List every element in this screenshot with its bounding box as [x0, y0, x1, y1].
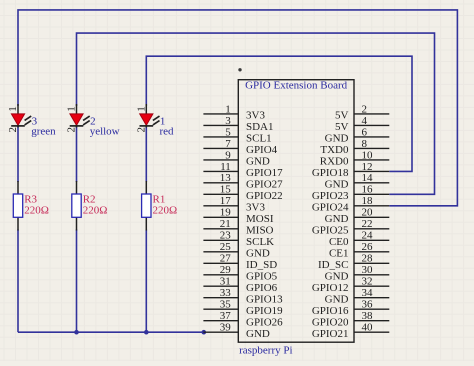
- svg-text:5V: 5V: [335, 110, 349, 122]
- pin 15 GPIO22 (left): [203, 184, 282, 202]
- pin 12 GPIO18 (right): [312, 161, 389, 179]
- svg-text:GPIO27: GPIO27: [246, 178, 283, 190]
- svg-text:31: 31: [220, 276, 231, 288]
- pin 20 GND (right): [325, 207, 390, 225]
- svg-text:GPIO26: GPIO26: [246, 316, 283, 328]
- svg-text:GPIO16: GPIO16: [312, 305, 349, 317]
- svg-text:17: 17: [220, 195, 232, 207]
- svg-text:5: 5: [225, 126, 231, 138]
- svg-text:24: 24: [362, 230, 374, 242]
- svg-text:3V3: 3V3: [246, 201, 265, 213]
- wire: resistor to ground bus (red column): [145, 230, 147, 333]
- pin 35 GPIO19 (left): [203, 299, 283, 317]
- pin 22 GPIO25 (right): [312, 218, 389, 236]
- pin 16 GPIO23 (right): [312, 184, 389, 202]
- pin 5 SCL1 (left): [203, 126, 271, 144]
- svg-text:39: 39: [220, 322, 232, 334]
- svg-text:10: 10: [362, 149, 374, 161]
- svg-text:3V3: 3V3: [246, 110, 265, 122]
- svg-text:1: 1: [225, 103, 231, 115]
- svg-text:GPIO6: GPIO6: [246, 282, 278, 294]
- svg-text:40: 40: [362, 322, 374, 334]
- pin 28 ID_SC (right): [318, 253, 389, 271]
- svg-text:CE1: CE1: [329, 247, 349, 259]
- svg-text:raspberry Pi: raspberry Pi: [239, 345, 292, 357]
- wire: green LED cathode to resistor: [17, 126, 19, 182]
- svg-text:28: 28: [362, 253, 374, 265]
- svg-text:GPIO4: GPIO4: [246, 144, 278, 156]
- svg-text:GPIO22: GPIO22: [246, 190, 283, 202]
- resistor R3 220&#937;: [13, 181, 22, 231]
- pin 2 5V (right): [335, 103, 389, 121]
- svg-text:ID_SC: ID_SC: [318, 259, 349, 271]
- svg-text:32: 32: [362, 276, 373, 288]
- pin 6 GND (right): [325, 126, 390, 144]
- svg-text:33: 33: [220, 287, 232, 299]
- svg-text:R2: R2: [83, 193, 96, 205]
- LED 2 (yellow): [70, 104, 90, 128]
- svg-text:GPIO18: GPIO18: [312, 167, 349, 179]
- svg-text:35: 35: [220, 299, 232, 311]
- resistor R1 220&#937;: [142, 181, 151, 231]
- svg-text:green: green: [31, 125, 56, 137]
- GPIO Extension Board (raspberry Pi header): [238, 80, 354, 343]
- svg-text:3: 3: [225, 115, 231, 127]
- svg-text:18: 18: [362, 195, 374, 207]
- svg-text:GPIO25: GPIO25: [312, 224, 349, 236]
- pin 25 GND (left): [203, 241, 269, 259]
- svg-text:SDA1: SDA1: [246, 121, 274, 133]
- svg-text:GND: GND: [325, 213, 349, 225]
- junction: yellow column on ground bus: [74, 330, 79, 335]
- wire: red LED cathode to resistor: [145, 126, 147, 182]
- resistor R2 220&#937;: [72, 181, 81, 231]
- pin 27 ID_SD (left): [203, 253, 277, 271]
- pin 21 MISO (left): [203, 218, 273, 236]
- svg-text:6: 6: [362, 126, 368, 138]
- svg-text:GND: GND: [325, 293, 349, 305]
- svg-text:MISO: MISO: [246, 224, 274, 236]
- pin 36 GPIO16 (right): [312, 299, 389, 317]
- svg-text:red: red: [160, 125, 175, 137]
- svg-text:13: 13: [220, 172, 232, 184]
- svg-text:SCL1: SCL1: [246, 133, 272, 145]
- svg-text:SCLK: SCLK: [246, 236, 274, 248]
- pin 40 GPIO21 (right): [312, 322, 389, 340]
- svg-text:GPIO23: GPIO23: [312, 190, 349, 202]
- pin 38 GPIO20 (right): [312, 310, 389, 328]
- pin 29 GPIO5 (left): [203, 264, 277, 282]
- wire: red LED anode up and across to GPIO18 pin 12 stub: [146, 56, 412, 171]
- pin 33 GPIO13 (left): [203, 287, 283, 305]
- pin 3 SDA1 (left): [203, 115, 273, 133]
- pin 37 GPIO26 (left): [203, 310, 283, 328]
- svg-text:26: 26: [362, 241, 374, 253]
- svg-text:GND: GND: [325, 270, 349, 282]
- svg-text:36: 36: [362, 299, 374, 311]
- svg-text:16: 16: [362, 184, 374, 196]
- svg-text:22: 22: [362, 218, 373, 230]
- pin 1 3V3 (left): [203, 103, 265, 121]
- svg-text:GND: GND: [246, 328, 270, 340]
- svg-text:9: 9: [225, 149, 231, 161]
- svg-text:GND: GND: [325, 133, 349, 145]
- svg-text:GPIO20: GPIO20: [312, 316, 349, 328]
- svg-text:20: 20: [362, 207, 374, 219]
- pin 34 GND (right): [325, 287, 390, 305]
- pin 14 GND (right): [325, 172, 390, 190]
- svg-text:23: 23: [220, 230, 232, 242]
- pin 39 GND (left): [203, 322, 269, 340]
- svg-text:2: 2: [362, 103, 368, 115]
- pin 19 MOSI (left): [203, 207, 273, 225]
- pin 26 CE1 (right): [329, 241, 389, 259]
- svg-text:34: 34: [362, 287, 374, 299]
- svg-text:11: 11: [220, 161, 231, 173]
- svg-text:CE0: CE0: [329, 236, 349, 248]
- svg-text:220Ω: 220Ω: [83, 205, 108, 217]
- svg-text:GPIO19: GPIO19: [246, 305, 283, 317]
- pin 32 GPIO12 (right): [312, 276, 389, 294]
- svg-text:2: 2: [7, 127, 19, 133]
- pin 9 GND (left): [203, 149, 269, 167]
- wire: yellow LED cathode to resistor: [76, 126, 78, 182]
- svg-text:25: 25: [220, 241, 232, 253]
- pin 11 GPIO17 (left): [203, 161, 283, 179]
- pin 13 GPIO27 (left): [203, 172, 283, 190]
- svg-text:GND: GND: [246, 156, 270, 168]
- LED 3 (green): [11, 104, 31, 128]
- svg-text:ID_SD: ID_SD: [246, 259, 277, 271]
- wire: resistor to ground bus (yellow column): [76, 230, 78, 333]
- svg-text:TXD0: TXD0: [320, 144, 349, 156]
- svg-text:4: 4: [362, 115, 368, 127]
- pin 31 GPIO6 (left): [203, 276, 277, 294]
- svg-text:220Ω: 220Ω: [24, 205, 49, 217]
- svg-text:RXD0: RXD0: [320, 156, 349, 168]
- svg-text:1: 1: [7, 106, 19, 112]
- junction: ground bus at pin 39 stub: [202, 330, 207, 335]
- svg-text:37: 37: [220, 310, 232, 322]
- svg-text:2: 2: [66, 127, 78, 133]
- pin 10 RXD0 (right): [320, 149, 390, 167]
- svg-text:GPIO21: GPIO21: [312, 328, 349, 340]
- pin 8 TXD0 (right): [320, 138, 389, 156]
- pin 23 SCLK (left): [203, 230, 274, 248]
- pin 24 CE0 (right): [329, 230, 389, 248]
- svg-text:30: 30: [362, 264, 374, 276]
- pin 17 3V3 (left): [203, 195, 265, 213]
- svg-text:GPIO Extension Board: GPIO Extension Board: [245, 80, 348, 92]
- node marker dot above GPIO board: [238, 68, 241, 71]
- svg-text:38: 38: [362, 310, 374, 322]
- wire: green LED anode up and across to GPIO24 pin 18 stub: [18, 10, 457, 206]
- wire: yellow LED anode up and across to GPIO23 pin 16 stub: [77, 33, 435, 194]
- svg-text:GND: GND: [246, 247, 270, 259]
- wire: resistor to ground bus (green column): [17, 230, 19, 333]
- svg-text:GND: GND: [325, 178, 349, 190]
- svg-text:1: 1: [135, 106, 147, 112]
- svg-text:R1: R1: [153, 193, 166, 205]
- svg-text:220Ω: 220Ω: [153, 205, 178, 217]
- pin 7 GPIO4 (left): [203, 138, 277, 156]
- svg-text:29: 29: [220, 264, 232, 276]
- pin 4 5V (right): [335, 115, 389, 133]
- svg-text:19: 19: [220, 207, 232, 219]
- svg-text:GPIO5: GPIO5: [246, 270, 278, 282]
- svg-text:yellow: yellow: [90, 125, 120, 137]
- svg-text:GPIO17: GPIO17: [246, 167, 283, 179]
- svg-text:5V: 5V: [335, 121, 349, 133]
- svg-text:12: 12: [362, 161, 373, 173]
- svg-text:2: 2: [135, 127, 147, 133]
- wire: ground bus to GPIO pin 39 GND: [18, 331, 204, 333]
- svg-text:1: 1: [66, 106, 78, 112]
- svg-text:7: 7: [225, 138, 231, 150]
- svg-text:14: 14: [362, 172, 374, 184]
- svg-text:R3: R3: [24, 193, 37, 205]
- pin 18 GPIO24 (right): [312, 195, 389, 213]
- svg-text:21: 21: [220, 218, 231, 230]
- svg-text:15: 15: [220, 184, 232, 196]
- pin 30 GND (right): [325, 264, 390, 282]
- svg-text:MOSI: MOSI: [246, 213, 274, 225]
- junction: red column on ground bus: [144, 330, 149, 335]
- svg-text:27: 27: [220, 253, 232, 265]
- svg-text:8: 8: [362, 138, 368, 150]
- LED 1 (red): [140, 104, 160, 128]
- svg-text:GPIO13: GPIO13: [246, 293, 283, 305]
- svg-text:GPIO12: GPIO12: [312, 282, 349, 294]
- svg-text:GPIO24: GPIO24: [312, 201, 349, 213]
